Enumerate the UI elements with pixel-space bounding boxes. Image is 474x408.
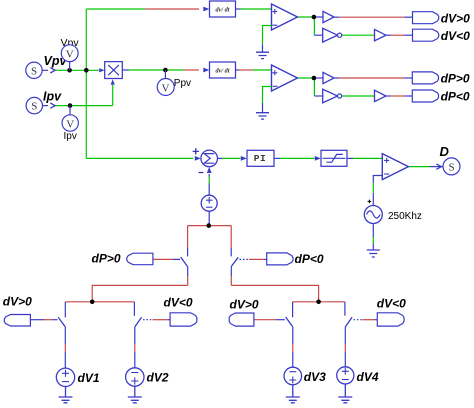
ground GND-dV2 [128, 386, 142, 403]
node junction left pair bus [90, 300, 95, 305]
svg-text:dV>0: dV>0 [3, 295, 32, 309]
wire summer to PI [218, 157, 241, 159]
svg-text:dv/ dt: dv/ dt [216, 67, 230, 74]
wire PI to limiter [274, 157, 315, 159]
wire Q2 gate (dotted near blade) [240, 258, 267, 260]
node junction right pair bus [316, 300, 321, 305]
voltmeter V-Vpv [61, 37, 80, 70]
svg-text:dV1: dV1 [78, 371, 100, 385]
wire d/dt1 to comparator U1 [236, 8, 272, 10]
dc source dV2 [126, 368, 169, 386]
ground GND2 [256, 113, 269, 119]
svg-text:S: S [448, 162, 454, 174]
arrow into multiplier left input [99, 68, 104, 72]
wire V5 to bus [208, 211, 210, 225]
arrow into summer [195, 156, 201, 161]
summer SUM1 [193, 148, 218, 172]
svg-text:dV3: dV3 [304, 370, 326, 384]
wire buffer B3 to label dP>0 [334, 77, 412, 79]
wire S1 to multiplier (blue arrow then green) [42, 69, 99, 71]
wire U2 minus to ground [263, 87, 272, 113]
op-amp U3 (PWM comparator) [382, 154, 408, 180]
wire d/dt2 to comparator U2 [236, 69, 272, 71]
switch Q5 (dV>0 / dV3) [286, 302, 293, 368]
ground GND-dV1 [59, 387, 73, 403]
inverter I1 [323, 28, 342, 42]
svg-text:dV4: dV4 [357, 370, 379, 384]
arrow into limiter [315, 156, 321, 161]
switch Q2 (dP<0 branch) [231, 226, 238, 286]
svg-text:dP>0: dP>0 [441, 72, 470, 86]
ground GND3 (sine source) [367, 250, 380, 257]
block d/dt-1 [210, 1, 236, 17]
switch Q4 (dV<0 / dV2) [134, 302, 141, 368]
wire limiter to comparator U3 [347, 157, 382, 159]
wire summer minus input from V5 [208, 174, 210, 195]
svg-text:Ipv: Ipv [43, 90, 62, 104]
wire Q5 gate [254, 319, 285, 321]
svg-text:dV>0: dV>0 [230, 297, 259, 311]
wire top row to d/dt1 (green then red) [86, 8, 199, 10]
wire sine source to ground [372, 224, 374, 250]
op-amp U2 (dP comparator) [272, 65, 298, 91]
node junction Ipv probe [68, 103, 73, 108]
op-amp U1 (dV comparator) [272, 4, 298, 30]
arrow up into summer minus [207, 167, 212, 173]
wire Q1 to left pair bus [65, 285, 187, 301]
svg-text:S: S [31, 65, 37, 77]
switch Q1 (dP>0 branch) [181, 226, 188, 286]
arrow into d/dt1 [203, 7, 209, 12]
wire Vpv vertical net (green) from top row to summing input [85, 9, 87, 158]
dc source V5 (Vref perturb) [201, 195, 217, 211]
wire buffer B4 to label dP<0 [386, 95, 412, 97]
svg-text:dv/ dt: dv/ dt [216, 6, 230, 13]
wire sine source to U3 minus input [373, 176, 382, 206]
wire Q6 gate (dotted near blade) [354, 319, 378, 321]
label tag dV<0 [413, 29, 471, 43]
label tag dP<0 (gate of Q2) [267, 252, 324, 266]
node junction U1 output [312, 15, 317, 20]
wire Q2 to right pair bus [231, 285, 345, 301]
wire Q4 gate (dotted near blade) [143, 319, 170, 321]
svg-text:dV2: dV2 [147, 371, 169, 385]
label tag dV>0 top [413, 11, 471, 25]
node junction Vpv vertical [84, 68, 89, 73]
ground GND-dV3 [286, 385, 300, 403]
wire S2 to Ipv net (blue arrow then green) [42, 85, 112, 106]
block PI [247, 150, 274, 166]
node junction U2 output [312, 76, 317, 81]
svg-text:dV<0: dV<0 [164, 296, 193, 310]
voltmeter V-Ipv [62, 106, 78, 142]
buffer B3 [323, 72, 334, 83]
wire summing input (green) [86, 157, 193, 159]
wire comparator U2 output to gates [298, 78, 324, 96]
svg-text:dP<0: dP<0 [295, 252, 324, 266]
label tag dP<0 top [412, 90, 470, 104]
node junction Ppv probe [163, 68, 168, 73]
svg-text:S: S [31, 101, 37, 113]
svg-text:dV>0: dV>0 [441, 11, 470, 25]
inverter I2 [323, 89, 342, 103]
wire inverter I1 to buffer B2 [342, 34, 375, 36]
wire U1 minus to ground [263, 26, 272, 53]
arrow on Ipv wire [50, 103, 55, 108]
dc source dV3 [284, 367, 326, 385]
dc source dV4 [337, 367, 379, 384]
label tag dP>0 top [412, 72, 470, 86]
block limiter [321, 150, 347, 166]
svg-text:V: V [66, 118, 74, 130]
svg-text:dV<0: dV<0 [377, 296, 406, 310]
svg-text:V: V [162, 83, 170, 95]
svg-text:250Khz: 250Khz [388, 211, 422, 222]
source S3 (duty output) [443, 158, 460, 175]
label tag dV>0 (gate of Q5) [229, 297, 259, 326]
label tag dP>0 (gate of Q1) [92, 252, 153, 266]
wire buffer B1 to label dV>0 [334, 16, 413, 18]
svg-text:dP>0: dP>0 [92, 252, 121, 266]
svg-text:V: V [66, 49, 74, 61]
dc source dV1 [56, 368, 100, 386]
ground GND-dV4 [338, 384, 352, 403]
wire comparator U1 output to gates [298, 17, 324, 35]
voltmeter V-Ppv [157, 70, 191, 96]
arrow into S3 [436, 164, 441, 169]
wire top bus (red) [188, 225, 232, 227]
ground GND1 [256, 52, 269, 58]
label tag dV<0 (gate of Q4) [164, 296, 197, 327]
multiplier M1 [105, 62, 123, 79]
svg-text:Ppv: Ppv [174, 78, 191, 89]
wire Q3 gate [30, 319, 57, 321]
switch Q3 (dV>0 / dV1) [58, 302, 65, 368]
svg-text:dV<0: dV<0 [441, 29, 470, 43]
node junction Vpv probe [67, 68, 72, 73]
switch Q6 (dV<0 / dV4) [345, 302, 352, 367]
svg-text:PI: PI [254, 153, 267, 164]
svg-text:Ipv: Ipv [64, 131, 77, 142]
arrow into d/dt2 [203, 68, 209, 73]
buffer B4 [375, 90, 387, 101]
wire comparator U3 output to S3 [408, 166, 443, 168]
arrow into PI [241, 156, 247, 161]
source S2 (Ipv sensor) [26, 97, 42, 113]
svg-text:dP<0: dP<0 [441, 90, 470, 104]
buffer B2 [375, 29, 387, 40]
sine source 250Khz [364, 200, 422, 224]
arrow on Vpv wire [50, 68, 55, 73]
source S1 (Vpv sensor) [26, 62, 42, 78]
wire Q1 gate [153, 258, 180, 260]
wire inverter I2 to buffer B4 [342, 95, 375, 97]
arrow into multiplier bottom input [111, 79, 115, 84]
svg-text:D: D [440, 144, 450, 159]
label tag dV>0 (gate of Q3) [3, 295, 32, 326]
label tag dV<0 (gate of Q6) [377, 296, 406, 326]
block d/dt-2 [210, 62, 236, 78]
wire multiplier output to d/dt2 [122, 69, 199, 71]
node junction top bus [207, 223, 212, 228]
wire buffer B2 to label dV<0 [386, 34, 413, 36]
buffer B1 [323, 11, 334, 22]
